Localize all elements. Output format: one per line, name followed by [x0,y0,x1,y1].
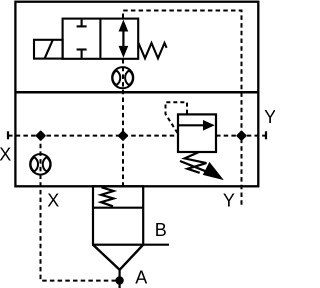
svg-text:Y: Y [223,191,235,211]
node A dot [115,276,123,284]
junction node (left) [37,132,45,140]
relief valve adjustment arrow [180,161,223,179]
cartridge spring [101,187,114,206]
solenoid actuator [34,40,63,59]
block divider line [15,91,258,94]
relief valve adjustable spring [185,152,207,173]
cartridge valve box [93,186,143,244]
cartridge spring chamber line [93,207,143,209]
solenoid valve body squares [63,19,139,59]
svg-text:X: X [0,144,11,164]
relief valve pilot loop (dashed) [166,102,188,133]
valve return spring [139,43,167,58]
relief valve flow arrow [179,121,214,130]
svg-text:A: A [135,268,147,288]
A line stub [118,270,120,288]
B port line [143,244,169,246]
svg-text:Y: Y [264,107,275,127]
svg-text:B: B [155,220,167,240]
orifice plug circle (below valve) [112,67,133,88]
port X tick (left edge) [7,131,9,139]
junction node (right) [237,132,245,140]
vertical dashed line valve to cartridge [122,59,124,186]
manifold block outline [15,2,258,187]
relief valve square [178,114,216,152]
pilot line valve to Y (dashed) [123,11,242,206]
left pilot branch X (dashed) [41,136,117,281]
flow path double arrow [119,21,127,56]
svg-text:X: X [47,191,59,211]
main pilot gallery dashed horizontal [8,135,178,137]
cartridge poppet cone [93,245,143,270]
port Y tick (right edge) [265,131,267,139]
blocked port T (top) [77,20,87,27]
junction node (middle) [119,132,127,140]
blocked port T (bottom) [77,50,87,59]
orifice plug circle (left) [30,154,51,175]
